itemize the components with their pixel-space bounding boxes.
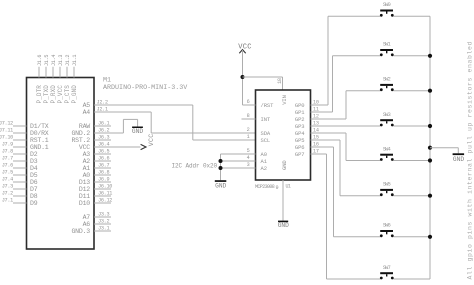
svg-text:D11: D11	[79, 193, 90, 200]
svg-text:4: 4	[247, 155, 250, 161]
svg-text:RAW: RAW	[79, 123, 90, 130]
junction SW5 on rail	[428, 194, 432, 198]
svg-text:J1.4: J1.4	[51, 55, 57, 66]
wire GP6 to SW6	[311, 147, 381, 237]
svg-text:I2C Addr 0x20: I2C Addr 0x20	[172, 162, 218, 169]
svg-text:J6.1: J6.1	[98, 121, 109, 127]
switch SW0 (push button)	[380, 2, 394, 17]
svg-text:SW6: SW6	[383, 223, 391, 229]
svg-text:/RST: /RST	[261, 102, 275, 109]
svg-text:SW2: SW2	[383, 77, 391, 83]
power symbol VCC (top)	[238, 44, 252, 54]
wire net SDA: A4 to U1 SDA	[94, 112, 256, 133]
svg-text:A2: A2	[83, 158, 91, 165]
wire common switch rail	[429, 16, 431, 279]
svg-text:A5: A5	[83, 102, 91, 109]
svg-text:1: 1	[247, 134, 250, 140]
svg-text:GP6: GP6	[295, 144, 305, 151]
svg-text:J7.3: J7.3	[2, 184, 13, 190]
svg-text:J6.11: J6.11	[98, 191, 112, 197]
pin J3.2 (A6) of M1	[83, 219, 111, 228]
pin J7.7 (D3) of M1	[2, 156, 38, 165]
wire VCC pin to power symbol	[94, 146, 140, 148]
wire GP3 to SW3	[311, 125, 381, 127]
svg-text:ARDUINO-PRO-MINI-3.3V: ARDUINO-PRO-MINI-3.3V	[103, 84, 187, 92]
pin 9 (GND) of U1	[276, 180, 284, 221]
svg-text:GP3: GP3	[295, 123, 305, 130]
switch SW1 (push button)	[380, 42, 394, 57]
label U1 pin name GND (bottom)	[281, 160, 288, 170]
svg-text:MCP23008: MCP23008	[255, 184, 275, 190]
wire SW5 to common ground rail	[394, 195, 431, 197]
svg-text:5: 5	[247, 148, 250, 154]
wire net SCL: A5 to U1 SCL	[94, 105, 256, 140]
pin 10 (GP0) of U1	[295, 100, 319, 109]
svg-text:GP7: GP7	[295, 151, 305, 158]
svg-text:J7.9: J7.9	[2, 142, 13, 148]
pin J1.5 (P_TXD) of M1	[43, 55, 50, 104]
note: all gpio pins with internal pull up resistors enabled	[467, 41, 474, 280]
pin J7.11 (D0/RX) of M1	[0, 128, 49, 137]
svg-text:VCC: VCC	[148, 134, 155, 147]
svg-text:D5: D5	[30, 172, 38, 179]
svg-text:A2: A2	[261, 165, 267, 172]
pin J1.2 (P_CTS) of M1	[64, 55, 71, 104]
ground symbol below U1	[278, 221, 289, 229]
svg-text:J1.5: J1.5	[44, 55, 50, 66]
svg-text:P_GND: P_GND	[71, 85, 78, 104]
svg-text:J7.6: J7.6	[2, 163, 13, 169]
wire GP2 to SW2	[311, 91, 381, 119]
svg-text:SCL: SCL	[261, 137, 271, 144]
svg-text:J1.2: J1.2	[65, 55, 71, 66]
pin 1 (SCL) of U1	[247, 134, 270, 144]
wire SW6 to common ground rail	[394, 236, 431, 238]
pin J6.5 (A3) of M1	[83, 149, 111, 158]
svg-text:GND: GND	[281, 160, 288, 170]
pin 17 (GP7) of U1	[295, 149, 319, 158]
svg-text:D0/RX: D0/RX	[30, 130, 49, 137]
pin 5 (A0) of U1	[221, 148, 267, 158]
pin 6 (/RST) of U1	[243, 99, 275, 109]
svg-text:P_TXD: P_TXD	[43, 85, 50, 104]
svg-text:RST.2: RST.2	[71, 137, 90, 144]
svg-text:D7: D7	[30, 186, 38, 193]
svg-text:A0: A0	[261, 151, 267, 158]
svg-text:J7.10: J7.10	[0, 135, 13, 141]
pin J7.3 (D7) of M1	[2, 184, 38, 193]
svg-text:VIN: VIN	[281, 95, 288, 105]
pin J2.1 (A4) of M1	[83, 107, 108, 116]
svg-text:8: 8	[247, 113, 250, 119]
svg-text:SDA: SDA	[261, 130, 271, 137]
label M1 value ARDUINO-PRO-MINI-3.3V	[103, 84, 187, 92]
wire SW7 to common ground rail	[394, 278, 431, 280]
svg-text:J1.3: J1.3	[58, 55, 64, 66]
pin J7.6 (D4) of M1	[2, 163, 38, 172]
svg-text:SW5: SW5	[383, 182, 391, 188]
svg-text:SW0: SW0	[383, 2, 391, 8]
svg-text:J6.8: J6.8	[98, 170, 109, 176]
svg-text:GND: GND	[278, 222, 289, 229]
svg-text:GP5: GP5	[295, 137, 305, 144]
svg-text:A7: A7	[83, 214, 91, 221]
pin J3.1 (GND.3) of M1	[71, 226, 111, 235]
junction SW2 on rail	[428, 89, 432, 93]
label M1 reference	[103, 77, 111, 85]
wire SW0 to common ground rail	[394, 15, 431, 17]
svg-text:J1.6: J1.6	[37, 55, 43, 66]
svg-text:D3: D3	[30, 158, 38, 165]
label I2C Addr 0x20	[172, 162, 218, 169]
svg-text:GP4: GP4	[295, 130, 305, 137]
junction SW6 on rail	[428, 235, 432, 239]
junction ground branch on rail	[428, 146, 432, 150]
svg-text:J7.7: J7.7	[2, 156, 13, 162]
wire SW1 to common ground rail	[394, 55, 431, 57]
junction VCC node	[241, 75, 245, 79]
svg-text:J1.1: J1.1	[72, 55, 78, 66]
pin 15 (GP5) of U1	[295, 135, 319, 144]
svg-text:P_CTS: P_CTS	[64, 85, 71, 104]
svg-text:GND: GND	[132, 128, 143, 135]
wire SW2 to common ground rail	[394, 90, 431, 92]
svg-text:6: 6	[247, 99, 250, 105]
svg-text:D8: D8	[30, 193, 38, 200]
wire GP7 to SW7	[311, 154, 381, 279]
pin number 18 (VIN) of U1	[277, 78, 283, 84]
pin J1.3 (P_VCC) of M1	[57, 55, 64, 104]
switch SW2 (push button)	[380, 77, 394, 92]
pin 12 (GP2) of U1	[295, 114, 319, 123]
svg-text:D10: D10	[79, 200, 90, 207]
svg-text:GND.2: GND.2	[71, 130, 90, 137]
svg-text:9: 9	[276, 185, 279, 191]
svg-text:J3.2: J3.2	[98, 219, 109, 225]
svg-text:J7.4: J7.4	[2, 177, 13, 183]
pin J6.10 (D12) of M1	[79, 184, 112, 193]
svg-text:D9: D9	[30, 200, 38, 207]
pin J7.8 (D2) of M1	[2, 149, 38, 158]
svg-text:J7.2: J7.2	[2, 191, 13, 197]
pin 4 (A1) of U1	[221, 155, 268, 165]
svg-text:GND: GND	[215, 182, 226, 189]
pin 8 (INT) of U1	[242, 113, 271, 123]
svg-text:J7.11: J7.11	[0, 128, 13, 134]
svg-text:D2: D2	[30, 151, 38, 158]
IC U1 MCP23008 body	[256, 90, 311, 180]
pin J7.9 (GND.1) of M1	[2, 142, 49, 151]
label U1 value MCP23008	[255, 184, 275, 190]
svg-text:A4: A4	[83, 109, 91, 116]
svg-text:VCC: VCC	[79, 144, 90, 151]
pin J6.11 (D11) of M1	[79, 191, 112, 200]
svg-text:J3.1: J3.1	[98, 226, 109, 232]
pin J7.1 (D9) of M1	[2, 198, 38, 207]
pin J6.4 (VCC) of M1	[79, 142, 110, 151]
svg-text:J6.9: J6.9	[98, 177, 109, 183]
switch SW3 (push button)	[380, 112, 394, 127]
svg-text:SW7: SW7	[383, 265, 391, 271]
svg-text:All gpio pins with internal pu: All gpio pins with internal pull up resi…	[467, 41, 474, 280]
svg-text:J7.8: J7.8	[2, 149, 13, 155]
wire GP0 to SW0	[311, 16, 381, 105]
svg-text:RST.1: RST.1	[30, 137, 49, 144]
IC M1 ARDUINO-PRO-MINI-3.3V body	[27, 78, 95, 250]
pin J6.9 (D13) of M1	[79, 177, 111, 186]
svg-text:J6.7: J6.7	[98, 163, 109, 169]
svg-text:J7.1: J7.1	[2, 198, 13, 204]
pin J3.3 (A7) of M1	[83, 212, 111, 221]
wire GND.2 to ground	[94, 119, 138, 133]
pin J1.6 (P_DTR) of M1	[36, 55, 43, 104]
pin 14 (GP4) of U1	[295, 128, 319, 137]
svg-text:VCC: VCC	[238, 44, 252, 52]
pin J6.3 (RST.2) of M1	[71, 135, 111, 144]
svg-text:GP2: GP2	[295, 116, 305, 123]
svg-text:J7.12: J7.12	[0, 121, 13, 127]
switch SW4 (push button)	[380, 146, 394, 161]
pin J2.2 (A5) of M1	[83, 100, 108, 109]
pin J6.6 (A2) of M1	[83, 156, 111, 165]
svg-text:A6: A6	[83, 221, 91, 228]
svg-text:18: 18	[277, 78, 283, 84]
svg-text:J7.5: J7.5	[2, 170, 13, 176]
junction A1 node	[219, 159, 223, 163]
pin 11 (GP1) of U1	[295, 107, 319, 116]
svg-text:J6.6: J6.6	[98, 156, 109, 162]
pin 2 (SDA) of U1	[247, 127, 271, 137]
label U1 reference	[286, 184, 291, 190]
svg-text:SW4: SW4	[383, 146, 391, 152]
switch SW5 (push button)	[380, 182, 394, 197]
svg-text:A1: A1	[83, 165, 91, 172]
svg-text:U1: U1	[286, 184, 291, 190]
svg-text:A0: A0	[83, 172, 91, 179]
svg-text:P_DTR: P_DTR	[36, 85, 43, 104]
svg-text:A1: A1	[261, 158, 268, 165]
pin 13 (GP3) of U1	[295, 121, 319, 130]
junction A2 node	[219, 166, 223, 170]
wire GP1 to SW1	[311, 56, 381, 112]
svg-text:D1/TX: D1/TX	[30, 123, 49, 130]
svg-text:D12: D12	[79, 186, 90, 193]
pin J7.4 (D6) of M1	[2, 177, 38, 186]
wire VCC to U1 VIN pin 18	[243, 77, 283, 90]
pin 3 (A2) of U1	[221, 162, 267, 172]
label U1 pin name VIN	[281, 95, 288, 105]
junction SW1 on rail	[428, 54, 432, 58]
svg-text:GND.3: GND.3	[71, 228, 90, 235]
pin J6.7 (A1) of M1	[83, 163, 111, 172]
svg-text:GND: GND	[453, 156, 464, 163]
svg-text:2: 2	[247, 127, 250, 133]
svg-text:GP1: GP1	[295, 109, 305, 116]
ground symbol for address pins	[215, 180, 227, 189]
wire SW4 to common ground rail	[394, 160, 431, 162]
svg-text:P_VCC: P_VCC	[57, 85, 64, 104]
svg-text:J3.3: J3.3	[98, 212, 109, 218]
pin J6.12 (D10) of M1	[79, 198, 112, 207]
pin J1.1 (P_GND) of M1	[71, 55, 78, 104]
svg-text:SW3: SW3	[383, 112, 391, 118]
pin J7.12 (D1/TX) of M1	[0, 121, 49, 130]
ground symbol near M1	[132, 127, 143, 136]
pin 16 (GP6) of U1	[295, 142, 319, 151]
svg-text:GP0: GP0	[295, 102, 305, 109]
switch SW6 (push button)	[380, 223, 394, 238]
svg-text:D13: D13	[79, 179, 90, 186]
svg-text:J6.10: J6.10	[98, 184, 112, 190]
svg-text:GND.1: GND.1	[30, 144, 49, 151]
svg-text:J6.12: J6.12	[98, 198, 112, 204]
wire A0/A1/A2 address net to ground	[220, 154, 222, 180]
wire GP4 to SW4	[311, 133, 381, 161]
svg-text:D6: D6	[30, 179, 38, 186]
wire SW3 to common ground rail	[394, 125, 431, 127]
svg-text:J6.5: J6.5	[98, 149, 109, 155]
pin J1.4 (P_RXD) of M1	[50, 55, 57, 104]
power symbol VCC (right-pointing) at M1	[141, 134, 155, 150]
svg-text:J6.3: J6.3	[98, 135, 109, 141]
pin J7.2 (D8) of M1	[2, 191, 38, 200]
svg-text:3: 3	[247, 162, 250, 168]
junction SW3 on rail	[428, 124, 432, 128]
junction SW4 on rail	[428, 158, 432, 162]
pin J6.8 (A0) of M1	[83, 170, 111, 179]
pin J7.10 (RST.1) of M1	[0, 135, 49, 144]
pin J7.5 (D5) of M1	[2, 170, 38, 179]
svg-text:P_RXD: P_RXD	[50, 85, 57, 104]
svg-text:INT: INT	[261, 116, 271, 123]
svg-text:D4: D4	[30, 165, 38, 172]
pin J6.1 (RAW) of M1	[79, 121, 111, 130]
wire VCC down to /RST pin	[242, 50, 244, 105]
switch SW7 (push button)	[380, 265, 394, 280]
svg-text:SW1: SW1	[383, 42, 391, 48]
ground symbol at switch rail	[453, 153, 465, 163]
svg-text:A3: A3	[83, 151, 91, 158]
wire GP5 to SW5	[311, 140, 381, 196]
pin J6.2 (GND.2) of M1	[71, 128, 109, 137]
wire rail to ground	[430, 148, 458, 154]
